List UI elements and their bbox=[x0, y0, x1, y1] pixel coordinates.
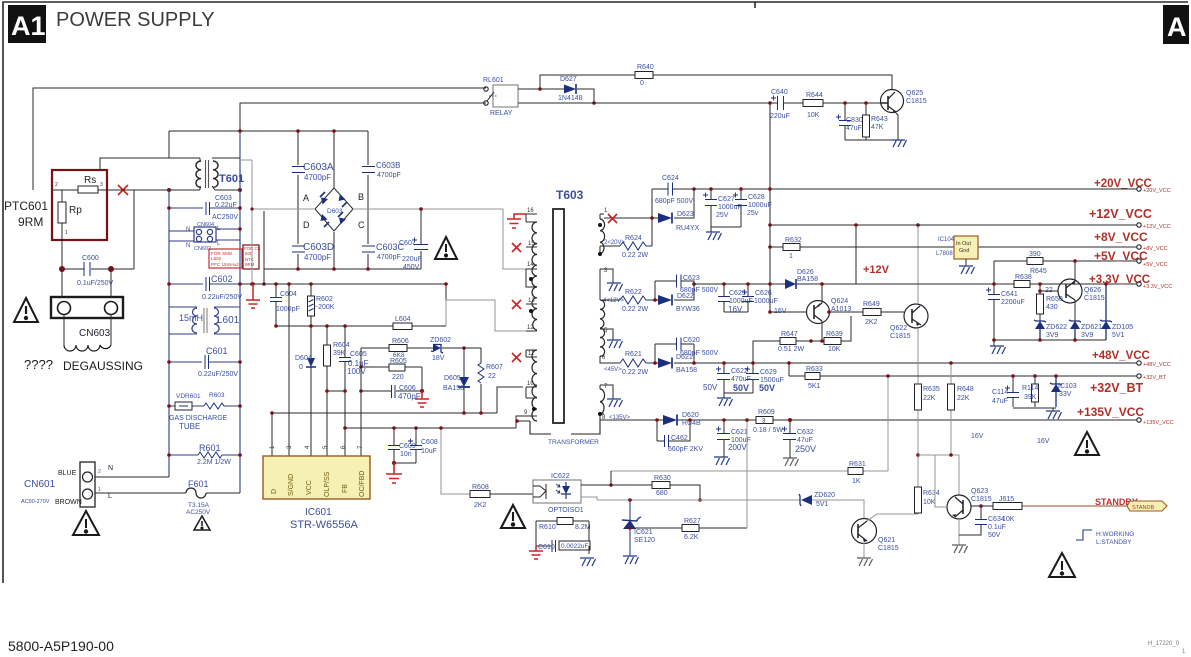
wire: FB drop to opto bbox=[441, 428, 470, 494]
svg-text:GAS DISCHARGE: GAS DISCHARGE bbox=[169, 415, 228, 422]
PTC601 box bbox=[52, 170, 107, 240]
R610 loop bbox=[536, 518, 591, 553]
svg-text:C623: C623 bbox=[683, 275, 700, 282]
capacitor C634 bbox=[959, 506, 981, 535]
svg-text:C609: C609 bbox=[399, 443, 416, 450]
svg-text:ZD621: ZD621 bbox=[1081, 324, 1102, 331]
hot ground red bbox=[246, 284, 260, 308]
capacitor C603C bbox=[362, 246, 375, 252]
optocoupler IC622 bbox=[533, 473, 584, 514]
wire: R604-C605 tie bbox=[327, 390, 345, 392]
svg-text:C632: C632 bbox=[797, 429, 814, 436]
ground pin7 bbox=[607, 399, 623, 407]
wire: pin9 to aux bus bbox=[516, 421, 530, 428]
resistor R650 bbox=[1039, 284, 1041, 321]
svg-text:18V: 18V bbox=[432, 355, 445, 362]
+20V_VCC line bbox=[652, 188, 1137, 190]
svg-text:0.22 2W: 0.22 2W bbox=[622, 252, 648, 259]
zener ZD622 bbox=[1035, 321, 1045, 329]
resistor R630 bbox=[611, 485, 700, 500]
svg-text:R645: R645 bbox=[1030, 268, 1047, 275]
svg-text:R603: R603 bbox=[209, 392, 225, 399]
svg-text:R635: R635 bbox=[923, 386, 940, 393]
svg-text:+8V_VCC: +8V_VCC bbox=[1094, 230, 1148, 244]
transistor Q626 bbox=[1058, 279, 1105, 303]
wire: CN604 connections bbox=[169, 229, 240, 241]
svg-text:16: 16 bbox=[527, 208, 534, 214]
svg-text:R630: R630 bbox=[654, 475, 671, 482]
svg-text:0.1uF/250V: 0.1uF/250V bbox=[77, 280, 114, 287]
resistor R114 bbox=[1034, 376, 1036, 407]
capacitor C621 bbox=[723, 420, 725, 452]
regulator IC104 bbox=[936, 236, 978, 259]
svg-text:R647: R647 bbox=[781, 331, 798, 338]
svg-text:9RM: 9RM bbox=[245, 262, 255, 267]
svg-text:22K: 22K bbox=[957, 395, 970, 402]
svg-text:R621: R621 bbox=[625, 351, 642, 358]
svg-text:1K: 1K bbox=[852, 478, 861, 485]
wire: Q622-Q623 link bbox=[918, 455, 959, 495]
resistor R607 bbox=[480, 348, 482, 413]
wire: pin12 feed bbox=[446, 300, 526, 331]
transformer T603 bbox=[530, 188, 605, 446]
relay RL601 bbox=[483, 77, 518, 117]
svg-text:50V: 50V bbox=[988, 532, 1001, 539]
STANDB tag bbox=[1127, 501, 1167, 511]
svg-text:50V: 50V bbox=[703, 383, 718, 392]
svg-text:F601: F601 bbox=[188, 479, 209, 489]
svg-text:VCC: VCC bbox=[306, 480, 313, 495]
+8V_VCC line bbox=[770, 246, 1137, 248]
svg-text:Q621: Q621 bbox=[878, 537, 895, 544]
zener rail bbox=[994, 339, 1106, 341]
hot ground red C606 bbox=[415, 391, 429, 407]
svg-text:Q622: Q622 bbox=[890, 325, 907, 332]
svg-text:220: 220 bbox=[392, 374, 404, 381]
svg-text:C1815: C1815 bbox=[971, 496, 992, 503]
capacitor C625 bbox=[724, 284, 748, 312]
svg-text:D620: D620 bbox=[682, 412, 699, 419]
svg-text:100V: 100V bbox=[347, 367, 366, 376]
svg-text:Q625: Q625 bbox=[906, 90, 923, 97]
svg-text:22K: 22K bbox=[923, 395, 936, 402]
capacitor C600 bbox=[84, 262, 90, 276]
capacitor C604 bbox=[275, 284, 277, 326]
svg-text:+12V: +12V bbox=[863, 264, 890, 276]
svg-text:0.22 2W: 0.22 2W bbox=[622, 369, 648, 376]
svg-text:2.2M 1/2W: 2.2M 1/2W bbox=[197, 459, 231, 466]
svg-text:47uF: 47uF bbox=[992, 398, 1008, 405]
svg-text:680pF 500V: 680pF 500V bbox=[680, 350, 718, 357]
IC601 pin7 wire bbox=[360, 348, 362, 456]
IC601 pin 3 wire bbox=[288, 284, 290, 456]
red x pin11 bbox=[512, 353, 521, 362]
IC601 pin 1 wire bbox=[271, 413, 273, 456]
svg-text:D603: D603 bbox=[327, 208, 343, 215]
svg-text:IC622: IC622 bbox=[551, 473, 570, 480]
resistor R621 bbox=[620, 359, 652, 367]
diode D627 bbox=[564, 85, 576, 94]
svg-text:Q623: Q623 bbox=[971, 488, 988, 495]
svg-text:1000pF: 1000pF bbox=[276, 306, 300, 313]
svg-text:D: D bbox=[303, 220, 310, 230]
svg-text:CN603: CN603 bbox=[79, 328, 111, 339]
svg-text:D605: D605 bbox=[444, 375, 461, 382]
svg-text:C621: C621 bbox=[731, 429, 748, 436]
zener IC103 bbox=[1051, 384, 1061, 392]
T603 secondary pin stubs bbox=[600, 214, 620, 420]
svg-text:10: 10 bbox=[527, 381, 534, 387]
wire: 12V loop bbox=[652, 281, 694, 300]
resistor R640 bbox=[540, 75, 892, 90]
svg-text:390: 390 bbox=[1029, 251, 1041, 258]
wire: T601 top to PTC pin3 bbox=[100, 131, 200, 170]
wire: T601 bottom row bbox=[169, 159, 240, 190]
svg-text:1N4148: 1N4148 bbox=[558, 95, 583, 102]
svg-text:1: 1 bbox=[789, 253, 793, 260]
svg-text:R609: R609 bbox=[758, 409, 775, 416]
svg-text:50V: 50V bbox=[759, 383, 775, 393]
svg-text:H:WORKING: H:WORKING bbox=[1096, 531, 1134, 538]
warning triangle right bbox=[1075, 432, 1099, 455]
svg-text:16V: 16V bbox=[971, 433, 984, 440]
svg-text:C1815: C1815 bbox=[878, 545, 899, 552]
svg-text:TUBE: TUBE bbox=[179, 422, 200, 431]
resistor R608 bbox=[490, 493, 533, 495]
resistor R633 bbox=[805, 373, 820, 380]
svg-text:L: L bbox=[108, 493, 112, 500]
svg-text:AC250V: AC250V bbox=[212, 214, 238, 221]
ground IC621 bbox=[623, 556, 639, 564]
svg-text:0.1uF: 0.1uF bbox=[988, 524, 1006, 531]
svg-text:47uF: 47uF bbox=[846, 125, 862, 132]
svg-text:H_17220_0: H_17220_0 bbox=[1148, 641, 1180, 647]
capacitor C603D bbox=[292, 246, 305, 252]
svg-text:15mH: 15mH bbox=[179, 313, 203, 323]
warning triangle CN601 bbox=[73, 511, 99, 535]
capacitor C624 bbox=[668, 183, 673, 196]
svg-text:4700pF: 4700pF bbox=[304, 253, 331, 262]
capacitor C632 bbox=[789, 420, 791, 452]
svg-text:3: 3 bbox=[100, 182, 103, 188]
svg-text:C606: C606 bbox=[399, 385, 416, 392]
standby line bbox=[971, 505, 993, 507]
zener ZD620 bbox=[801, 495, 812, 505]
svg-text:BA158: BA158 bbox=[676, 367, 697, 374]
capacitor C641 bbox=[993, 261, 995, 340]
svg-text:ZD105: ZD105 bbox=[1112, 324, 1133, 331]
svg-text:BYW36: BYW36 bbox=[676, 306, 700, 313]
svg-text:16V: 16V bbox=[728, 305, 743, 314]
+5V_VCC line bbox=[994, 260, 1137, 262]
svg-text:C629: C629 bbox=[760, 369, 777, 376]
svg-text:50V: 50V bbox=[733, 383, 749, 393]
svg-text:+32V_BT: +32V_BT bbox=[1090, 381, 1144, 395]
warning triangle bbox=[14, 298, 38, 322]
svg-text:D627: D627 bbox=[560, 76, 577, 83]
svg-text:14: 14 bbox=[527, 262, 534, 268]
hot ground red IC601 bbox=[386, 463, 402, 483]
wire: R631 link down bbox=[610, 471, 612, 485]
capacitor C601 bbox=[169, 361, 240, 363]
svg-text:+3.3V_VCC: +3.3V_VCC bbox=[1143, 284, 1172, 290]
warning triangle bottom right bbox=[1049, 553, 1075, 577]
svg-text:STR-W6556A: STR-W6556A bbox=[290, 519, 359, 531]
svg-text:220uF: 220uF bbox=[402, 256, 422, 263]
svg-text:220uF: 220uF bbox=[770, 113, 790, 120]
svg-text:ZD620: ZD620 bbox=[814, 492, 835, 499]
resistor R624 bbox=[620, 242, 652, 250]
svg-text:1: 1 bbox=[98, 487, 101, 493]
svg-text:2: 2 bbox=[98, 469, 101, 475]
wire: bridge AC left bbox=[240, 160, 315, 284]
connector CN603 bbox=[51, 297, 123, 318]
svg-text:0: 0 bbox=[299, 364, 303, 371]
svg-text:200V: 200V bbox=[728, 443, 747, 452]
svg-text:430: 430 bbox=[1046, 304, 1058, 311]
capacitor C462 bbox=[657, 420, 690, 441]
warning triangle C607 bbox=[435, 237, 457, 259]
svg-text:39K: 39K bbox=[1024, 394, 1037, 401]
svg-text:33V: 33V bbox=[1059, 391, 1072, 398]
+32 ground rail bbox=[1013, 408, 1056, 411]
svg-text:R631: R631 bbox=[849, 461, 866, 468]
hot ground red R610 bbox=[529, 546, 543, 559]
svg-text:PFC 15mH±2: PFC 15mH±2 bbox=[211, 262, 239, 267]
svg-text:+5V_VCC: +5V_VCC bbox=[1094, 249, 1148, 263]
svg-text:12: 12 bbox=[527, 325, 534, 331]
hot return bus bbox=[240, 283, 446, 285]
warning triangle small F601 bbox=[194, 516, 210, 530]
svg-text:R606: R606 bbox=[392, 338, 409, 345]
diode D622 bbox=[658, 295, 672, 305]
junction bbox=[59, 266, 65, 272]
resistor R601 bbox=[169, 454, 240, 456]
resistor R644 bbox=[803, 100, 823, 107]
svg-text:C: C bbox=[358, 220, 365, 230]
resistor R631 chain bbox=[611, 376, 888, 471]
svg-text:R602: R602 bbox=[316, 296, 333, 303]
wire: CN601 L to fuse bbox=[95, 492, 186, 494]
wire: relay out top bbox=[518, 89, 594, 103]
svg-text:C601: C601 bbox=[206, 346, 228, 356]
wire: Q623 base bbox=[935, 455, 947, 507]
svg-text:13: 13 bbox=[528, 298, 535, 304]
waveform symbol bbox=[1076, 530, 1092, 540]
svg-text:BLUE: BLUE bbox=[58, 470, 77, 477]
svg-text:5K1: 5K1 bbox=[808, 383, 821, 390]
resistor R627 bbox=[630, 527, 747, 529]
svg-text:C600: C600 bbox=[82, 255, 99, 262]
resistor J615 bbox=[993, 503, 1022, 510]
svg-text:R638: R638 bbox=[1015, 274, 1032, 281]
svg-text:A: A bbox=[303, 193, 309, 203]
resistor Rp bbox=[58, 202, 66, 223]
transistor Q622 bbox=[890, 304, 928, 340]
right rail bbox=[239, 131, 241, 493]
svg-text:2200uF: 2200uF bbox=[1001, 299, 1025, 306]
resistor R645 bbox=[1027, 258, 1043, 265]
svg-text:DEGAUSSING: DEGAUSSING bbox=[63, 359, 143, 373]
capacitor C622 bbox=[723, 363, 725, 393]
red x mark bbox=[118, 185, 128, 195]
svg-text:C627: C627 bbox=[718, 196, 735, 203]
svg-text:39K: 39K bbox=[333, 350, 346, 357]
zener ZD621 bbox=[1070, 321, 1080, 329]
red x pin1 bbox=[608, 214, 617, 223]
IC601 box bbox=[263, 456, 370, 499]
svg-text:2K2: 2K2 bbox=[474, 502, 487, 509]
svg-text:+48V_VCC: +48V_VCC bbox=[1143, 362, 1171, 368]
wire: R627 riser bbox=[746, 420, 748, 528]
ground R610 right bbox=[580, 558, 596, 566]
svg-text:RELAY: RELAY bbox=[490, 110, 513, 117]
svg-text:4700pF: 4700pF bbox=[304, 173, 331, 182]
wire: Q622 rail bbox=[917, 225, 919, 455]
svg-text:<45V>: <45V> bbox=[604, 367, 622, 373]
svg-text:BA158: BA158 bbox=[443, 385, 464, 392]
svg-text:16V: 16V bbox=[1037, 438, 1050, 445]
svg-text:+135V_VCC: +135V_VCC bbox=[1143, 420, 1174, 426]
svg-text:D626: D626 bbox=[797, 269, 814, 276]
resistor R634 bbox=[917, 455, 919, 514]
svg-text:R648: R648 bbox=[957, 386, 974, 393]
svg-text:D604: D604 bbox=[295, 355, 312, 362]
FOR CE dark red box bbox=[243, 245, 261, 269]
svg-text:+5V_VCC: +5V_VCC bbox=[1143, 262, 1168, 268]
capacitor C602 bbox=[169, 283, 240, 285]
svg-text:IC621: IC621 bbox=[634, 529, 653, 536]
capacitor C626 bbox=[747, 284, 749, 312]
svg-text:C603D: C603D bbox=[303, 242, 334, 253]
svg-text:R633: R633 bbox=[806, 366, 823, 373]
wire: Q623 emitter bbox=[958, 519, 960, 545]
svg-text:Rp: Rp bbox=[69, 205, 82, 216]
svg-text:C603A: C603A bbox=[303, 162, 334, 173]
warning triangle opto bbox=[501, 505, 525, 528]
resistor R639 bbox=[811, 316, 851, 341]
capacitor C629 bbox=[724, 363, 753, 393]
svg-text:AC250V: AC250V bbox=[186, 509, 211, 516]
ground zener rail bbox=[990, 346, 1006, 354]
svg-text:250V: 250V bbox=[795, 444, 816, 454]
ground C621 bbox=[714, 457, 730, 465]
svg-text:10uF: 10uF bbox=[421, 448, 437, 455]
svg-text:11: 11 bbox=[528, 351, 535, 357]
resistor R603 bbox=[200, 405, 240, 407]
svg-text:2: 2 bbox=[55, 182, 58, 188]
resistor R602 bbox=[310, 284, 312, 326]
capacitor C606 bbox=[361, 390, 422, 392]
resistor R638 bbox=[1014, 281, 1030, 288]
wire: C600 branch bbox=[62, 190, 134, 269]
svg-text:R605: R605 bbox=[390, 358, 407, 365]
capacitor C640 bbox=[778, 96, 784, 110]
+135V line bbox=[605, 419, 1137, 421]
terminal +32V_BT bbox=[1137, 374, 1141, 378]
diode D623 bbox=[658, 213, 672, 223]
svg-text:9RM: 9RM bbox=[18, 215, 43, 229]
aux low bus bbox=[345, 416, 523, 428]
svg-text:R643: R643 bbox=[871, 116, 888, 123]
wire: Q621 collector to R634 bbox=[867, 514, 918, 521]
svg-text:C605: C605 bbox=[350, 351, 367, 358]
svg-text:R627: R627 bbox=[684, 518, 701, 525]
svg-text:5800-A5P190-00: 5800-A5P190-00 bbox=[8, 638, 114, 654]
polarity dots bbox=[529, 277, 533, 281]
svg-text:+135V_VCC: +135V_VCC bbox=[1077, 405, 1144, 419]
svg-text:0.18 / 5W: 0.18 / 5W bbox=[753, 427, 783, 434]
red x pin15 bbox=[512, 243, 521, 252]
capacitor C605 bbox=[344, 326, 346, 456]
wire: relay lower feed from T601 right bbox=[240, 103, 486, 131]
svg-text:C1815: C1815 bbox=[1084, 295, 1105, 302]
ground IC104 bbox=[965, 259, 967, 266]
svg-text:C624: C624 bbox=[662, 175, 679, 182]
svg-text:C603: C603 bbox=[215, 195, 232, 202]
svg-text:N: N bbox=[186, 243, 190, 249]
wire: Q626 connections bbox=[1040, 261, 1075, 321]
resistor R643 bbox=[845, 103, 892, 140]
svg-text:D622: D622 bbox=[677, 293, 694, 300]
svg-text:L604: L604 bbox=[395, 316, 411, 323]
svg-text:0.22 2W: 0.22 2W bbox=[622, 306, 648, 313]
svg-text:Gnd: Gnd bbox=[959, 248, 969, 254]
svg-text:????: ???? bbox=[24, 357, 53, 372]
svg-text:4700pF: 4700pF bbox=[377, 172, 401, 179]
svg-text:C603B: C603B bbox=[376, 161, 400, 170]
+12V secondary line bbox=[694, 225, 856, 284]
degaussing coil bbox=[64, 314, 111, 345]
svg-text:IC103: IC103 bbox=[1058, 383, 1077, 390]
svg-text:10K: 10K bbox=[807, 112, 820, 119]
drain bus bbox=[272, 387, 523, 413]
svg-text:D623: D623 bbox=[677, 211, 694, 218]
svg-text:R601: R601 bbox=[199, 443, 221, 453]
svg-text:5V1: 5V1 bbox=[1112, 332, 1125, 339]
capacitor C620 bbox=[655, 343, 694, 345]
svg-text:L601: L601 bbox=[217, 315, 240, 326]
svg-text:POWER SUPPLY: POWER SUPPLY bbox=[56, 9, 215, 31]
svg-text:C1815: C1815 bbox=[890, 333, 911, 340]
wire: opto to R630 bbox=[581, 484, 611, 486]
svg-text:+48V_VCC: +48V_VCC bbox=[1092, 350, 1150, 362]
resistor R648 bbox=[950, 363, 952, 455]
svg-text:ZD622: ZD622 bbox=[1046, 324, 1067, 331]
svg-text:C628: C628 bbox=[748, 194, 765, 201]
svg-text:C602: C602 bbox=[211, 274, 233, 284]
diode D620 bbox=[663, 415, 677, 425]
svg-text:AC90-270V: AC90-270V bbox=[21, 499, 50, 505]
junction bbox=[108, 266, 114, 272]
junction bbox=[167, 188, 171, 192]
wire: bridge negative bus bbox=[264, 211, 421, 284]
wire: 20V loop bbox=[620, 189, 694, 246]
svg-text:R607: R607 bbox=[486, 364, 503, 371]
wire: bridge DC+ bus to T603 pin14 bbox=[353, 209, 526, 269]
svg-text:C625: C625 bbox=[729, 290, 746, 297]
svg-text:L602: L602 bbox=[211, 256, 222, 261]
wire: down to CN603 bbox=[62, 269, 111, 297]
capacitor C603A bbox=[292, 167, 305, 173]
ground Q625 bbox=[891, 140, 907, 147]
svg-text:25v: 25v bbox=[747, 210, 759, 217]
bridge top bus bbox=[169, 131, 368, 269]
resistor R647 bbox=[753, 341, 811, 363]
svg-text:R634: R634 bbox=[923, 490, 940, 497]
svg-text:8.2M: 8.2M bbox=[575, 524, 591, 531]
svg-text:C607: C607 bbox=[399, 240, 416, 247]
